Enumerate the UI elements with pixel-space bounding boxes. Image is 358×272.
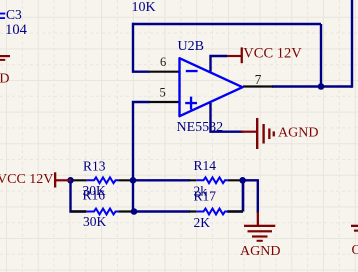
svg-text:C3: C3 (6, 7, 22, 22)
svg-text:U2B: U2B (178, 39, 204, 54)
pin 6 (149, 71, 180, 73)
resistor R17 body (196, 209, 228, 215)
junction dots (67, 177, 74, 184)
svg-text:30K: 30K (83, 214, 107, 229)
wire pin8 to VCC (211, 56, 228, 72)
resistor R14 pins (189, 179, 243, 181)
resistor R16 pins (71, 210, 134, 212)
pin 7 (243, 85, 273, 87)
svg-text:AGND: AGND (240, 244, 280, 259)
svg-text:104: 104 (5, 22, 28, 38)
wire row2 between resistors (134, 210, 190, 212)
svg-text:R14: R14 (194, 158, 217, 173)
wire vertical pin5 to row1/row2 (133, 102, 150, 212)
resistor R13 body (87, 177, 119, 183)
wire row1 between resistors (133, 179, 190, 181)
resistor R17 pins (189, 210, 243, 212)
svg-text:VCC 12V: VCC 12V (243, 45, 302, 61)
ground AGND (mid, rotated) (241, 118, 275, 149)
svg-text:R17: R17 (194, 189, 217, 204)
svg-text:AGND: AGND (278, 125, 318, 140)
wire feedback vertical (320, 24, 322, 87)
wire output to right (272, 85, 352, 87)
svg-text:VCC 12V: VCC 12V (0, 172, 53, 187)
svg-text:7: 7 (255, 72, 262, 87)
wire vertical to pin6 (133, 23, 150, 72)
op-amp plus input mark (185, 97, 197, 110)
svg-text:R13: R13 (83, 158, 106, 173)
text layer (5, 0, 223, 230)
wire right edge vertical (351, 0, 353, 88)
resistor R14 body (196, 177, 228, 183)
power VCC 12V (left) bar (54, 172, 71, 187)
pin 5 (149, 101, 180, 103)
svg-text:6: 6 (160, 55, 166, 69)
resistor R16 body (87, 209, 119, 215)
capacitor C3 (partial, left edge) (0, 13, 5, 19)
svg-text:2K: 2K (194, 215, 211, 230)
svg-text:R16: R16 (83, 187, 106, 202)
svg-text:5: 5 (160, 86, 166, 100)
wire feedback top (133, 23, 321, 25)
wire row2 right corner (227, 180, 243, 211)
op-amp U2B triangle (180, 58, 243, 116)
resistor R13 pins (71, 179, 133, 181)
svg-text:AGND: AGND (0, 72, 9, 87)
svg-text:O: O (352, 243, 358, 258)
svg-text:10K: 10K (132, 0, 156, 15)
wire pin4 to AGND (211, 103, 244, 132)
ground AGND (partial, left edge) (0, 55, 10, 61)
ground AGND (bottom) (244, 212, 275, 242)
power symbol fragment (right edge) (351, 225, 358, 232)
power VCC 12V (top) bar (227, 47, 243, 63)
op-amp minus input mark (186, 70, 198, 72)
svg-text:NE5532: NE5532 (177, 120, 224, 135)
wire row1 right to ground branch (243, 180, 258, 213)
wire row2 left drop (71, 180, 87, 211)
